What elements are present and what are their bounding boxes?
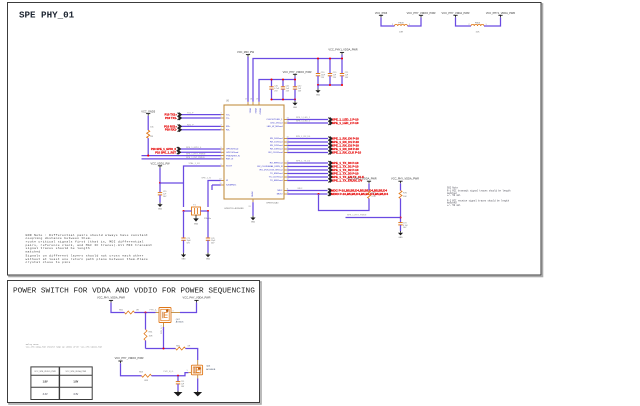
svg-text:RX_D3/Grad: RX_D3/Grad bbox=[270, 148, 283, 151]
svg-text:2.2K: 2.2K bbox=[372, 196, 377, 198]
svg-text:SPE_1_TX_D0: SPE_1_TX_D0 bbox=[296, 161, 311, 163]
svg-text:3.3V: 3.3V bbox=[43, 393, 48, 396]
svg-text:2: 2 bbox=[468, 24, 469, 26]
svg-text:3.3V: 3.3V bbox=[73, 393, 78, 396]
svg-text:VDD1: VDD1 bbox=[248, 108, 250, 114]
svg-text:TX_EN/Grad: TX_EN/Grad bbox=[270, 172, 283, 175]
svg-text:GND: GND bbox=[194, 224, 199, 226]
svg-text:matched: matched bbox=[26, 249, 41, 253]
svg-text:RX-: RX- bbox=[226, 130, 230, 132]
svg-text:VCC_PHY_VDDA_PWR: VCC_PHY_VDDA_PWR bbox=[442, 11, 470, 15]
svg-text:TX+: TX+ bbox=[226, 114, 231, 116]
svg-text:+/- 50 mil: +/- 50 mil bbox=[447, 194, 461, 197]
svg-text:P10 SPE_1_GPIO_0: P10 SPE_1_GPIO_0 bbox=[151, 147, 177, 151]
svg-text:18: 18 bbox=[250, 99, 252, 101]
svg-text:10K: 10K bbox=[476, 31, 480, 33]
svg-text:CLKOUT/LED_1: CLKOUT/LED_1 bbox=[266, 119, 283, 121]
svg-text:1.8V: 1.8V bbox=[73, 381, 78, 384]
svg-text:FB08: FB08 bbox=[398, 23, 404, 25]
svg-text:RX_D0/Grad: RX_D0/Grad bbox=[270, 137, 283, 140]
svg-text:1.8V: 1.8V bbox=[43, 381, 48, 384]
svg-text:RX_CLK/DATA4_DWN_N: RX_CLK/DATA4_DWN_N bbox=[257, 165, 282, 168]
svg-text:X25MHzIn: X25MHzIn bbox=[226, 185, 237, 187]
svg-text:2: 2 bbox=[392, 24, 393, 26]
svg-text:GND: GND bbox=[251, 222, 256, 224]
svg-text:SPE_1_LED_2: SPE_1_LED_2 bbox=[296, 121, 311, 123]
svg-text:1: 1 bbox=[409, 24, 410, 26]
svg-text:PHY_G_1: PHY_G_1 bbox=[161, 325, 163, 334]
svg-text:MDIO: MDIO bbox=[277, 194, 283, 196]
svg-text:GND: GND bbox=[206, 259, 211, 261]
svg-text:XTAL_1_XO: XTAL_1_XO bbox=[188, 162, 200, 165]
svg-text:P10 RX1-: P10 RX1- bbox=[165, 128, 177, 132]
svg-text:VCC_PHY1_VDDA_PWR: VCC_PHY1_VDDA_PWR bbox=[486, 11, 515, 15]
svg-text:SPE_1_XI: SPE_1_XI bbox=[201, 178, 211, 180]
svg-text:33: 33 bbox=[248, 206, 250, 208]
svg-text:VCC_PHY_VDDIO_PWR: VCC_PHY_VDDIO_PWR bbox=[407, 11, 436, 15]
svg-text:TX-: TX- bbox=[226, 118, 230, 120]
svg-text:XOUT: XOUT bbox=[226, 166, 233, 168]
svg-text:TX1_P: TX1_P bbox=[187, 113, 194, 115]
svg-text:VCC_PHY_VDDA_PWR: VCC_PHY_VDDA_PWR bbox=[97, 296, 125, 300]
svg-text:VCC_PHY_VDDIO_PWR: VCC_PHY_VDDIO_PWR bbox=[283, 70, 312, 74]
svg-text:LED_2/Grad: LED_2/Grad bbox=[270, 121, 283, 124]
svg-text:1: 1 bbox=[155, 310, 156, 312]
svg-text:GPE8T20A0: GPE8T20A0 bbox=[266, 202, 279, 205]
svg-text:1: 1 bbox=[485, 24, 486, 26]
svg-text:LED_W_N/Grad: LED_W_N/Grad bbox=[267, 125, 284, 128]
svg-text:AO3400B: AO3400B bbox=[206, 368, 216, 371]
svg-text:RX_D1/Grad: RX_D1/Grad bbox=[270, 141, 283, 144]
svg-text:RX+: RX+ bbox=[226, 126, 231, 128]
svg-text:SPE PHY_01: SPE PHY_01 bbox=[19, 10, 75, 21]
svg-text:SPE_1_RX_D0: SPE_1_RX_D0 bbox=[296, 136, 311, 138]
svg-text:3: 3 bbox=[172, 310, 173, 312]
svg-text:VCC_PHY_VDDA_PWR: VCC_PHY_VDDA_PWR bbox=[183, 296, 211, 300]
svg-text:TX_ER/Grad: TX_ER/Grad bbox=[270, 179, 283, 182]
svg-text:GND: GND bbox=[316, 94, 321, 96]
svg-text:RX_DV/CLK25_N/Grad: RX_DV/CLK25_N/Grad bbox=[260, 169, 284, 172]
svg-text:MDC: MDC bbox=[278, 190, 283, 192]
svg-text:RST_N: RST_N bbox=[226, 159, 234, 161]
svg-text:VCC_SPE_VDDIO_PWR: VCC_SPE_VDDIO_PWR bbox=[34, 371, 56, 373]
svg-text:SPE_1_RX_CLK P-10: SPE_1_RX_CLK P-10 bbox=[332, 151, 361, 155]
svg-text:VCC_SPE_VDDA_PWR should ramp u: VCC_SPE_VDDA_PWR should ramp up 100ms af… bbox=[26, 346, 103, 349]
svg-text:GND: GND bbox=[399, 237, 404, 239]
svg-text:AO3405: AO3405 bbox=[176, 321, 184, 324]
svg-text:10K: 10K bbox=[403, 196, 407, 198]
svg-text:TX_CLK/Grad: TX_CLK/Grad bbox=[269, 176, 284, 179]
svg-text:SPE_1_LED_1: SPE_1_LED_1 bbox=[296, 117, 311, 119]
svg-text:RX_D2/Grad: RX_D2/Grad bbox=[270, 144, 283, 147]
svg-text:P10 TX1-: P10 TX1- bbox=[165, 116, 177, 120]
svg-text:GPIO1/Grad: GPIO1/Grad bbox=[226, 151, 239, 154]
svg-text:POWER SWITCH FOR VDDA AND VDDI: POWER SWITCH FOR VDDA AND VDDIO FOR POWE… bbox=[13, 288, 255, 296]
svg-text:GPIO0/Grad: GPIO0/Grad bbox=[226, 148, 239, 151]
svg-text:VCC_GND5: VCC_GND5 bbox=[141, 109, 155, 113]
svg-text:VCC_PHY1_VDDA_PWR: VCC_PHY1_VDDA_PWR bbox=[328, 47, 357, 51]
svg-text:17: 17 bbox=[245, 99, 247, 101]
svg-text:VDDIO: VDDIO bbox=[258, 108, 260, 115]
svg-text:FB03: FB03 bbox=[475, 23, 481, 25]
svg-text:R-1 MII transmit signal traces: R-1 MII transmit signal traces should be… bbox=[447, 190, 511, 193]
svg-text:VCC_PW3: VCC_PW3 bbox=[375, 11, 388, 15]
svg-text:19: 19 bbox=[256, 99, 258, 101]
svg-text:RX1_P: RX1_P bbox=[187, 124, 194, 126]
svg-text:10R: 10R bbox=[399, 31, 403, 33]
svg-text:GND: GND bbox=[293, 107, 298, 109]
svg-text:SPE_1_INT_PWDN: SPE_1_INT_PWDN bbox=[186, 157, 205, 159]
svg-text:MDIO P-10,B5,B5,D4,B5,B5,D4,B: MDIO P-10,B5,B5,D4,B5,B5,D4,B5,B5,D4 bbox=[331, 192, 388, 196]
svg-text:GPE8T20+B2/B4B9: GPE8T20+B2/B4B9 bbox=[224, 208, 244, 210]
svg-text:VCC_PHY_VDDIO_PWR: VCC_PHY_VDDIO_PWR bbox=[115, 356, 144, 360]
svg-text:crystal close to pins: crystal close to pins bbox=[26, 260, 71, 264]
svg-text:GND: GND bbox=[182, 259, 187, 261]
svg-text:PHY_N_G: PHY_N_G bbox=[164, 371, 174, 373]
svg-text:P10 SPE_1_RST: P10 SPE_1_RST bbox=[155, 150, 176, 154]
svg-text:SPE_1_LED_2 P-10: SPE_1_LED_2 P-10 bbox=[332, 121, 359, 125]
svg-text:+/- 50 mil: +/- 50 mil bbox=[447, 204, 461, 207]
svg-text:SPE_1_RST_PWDN: SPE_1_RST_PWDN bbox=[186, 154, 206, 156]
svg-text:10R: 10R bbox=[149, 335, 153, 337]
svg-text:VDD2: VDD2 bbox=[254, 108, 256, 114]
svg-text:SPE_1_GPIO_0: SPE_1_GPIO_0 bbox=[186, 147, 202, 149]
svg-text:MDC: MDC bbox=[298, 188, 303, 190]
svg-text:1: 1 bbox=[187, 370, 188, 372]
svg-text:VCC_PHY_VDDA_PWR: VCC_PHY_VDDA_PWR bbox=[391, 176, 419, 180]
svg-text:RX_ER/Grad: RX_ER/Grad bbox=[270, 162, 284, 165]
svg-text:RX_CLK/Grad: RX_CLK/Grad bbox=[269, 151, 284, 154]
svg-text:GND: GND bbox=[158, 208, 163, 210]
svg-text:GND4: GND4 bbox=[252, 191, 254, 197]
svg-text:VCC_PHY1_VDDA_PWR: VCC_PHY1_VDDA_PWR bbox=[347, 176, 376, 180]
svg-text:VCC_SPE_VDDA_PWR: VCC_SPE_VDDA_PWR bbox=[66, 370, 87, 373]
svg-text:PWDN/INT_N: PWDN/INT_N bbox=[226, 155, 240, 157]
svg-text:VCC_MDI_PW: VCC_MDI_PW bbox=[237, 50, 255, 54]
svg-text:SPE_1_RST_PWDN: SPE_1_RST_PWDN bbox=[347, 215, 367, 217]
svg-text:VCC_VDD1_PW: VCC_VDD1_PW bbox=[150, 162, 170, 166]
